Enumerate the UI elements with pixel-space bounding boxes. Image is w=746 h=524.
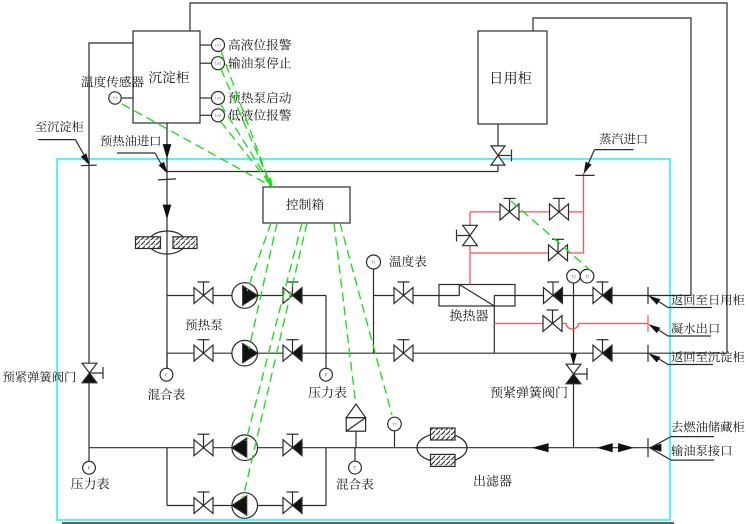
strainer 出滤器 xyxy=(417,433,467,462)
ctrl line box to relief xyxy=(334,223,356,402)
label 混合表 row3 xyxy=(336,478,348,489)
check valve hx out 2 xyxy=(593,288,603,304)
valve row1 inlet xyxy=(194,288,204,304)
leader arrow 蒸汽进口 xyxy=(584,162,591,172)
heat exchanger 换热器 xyxy=(439,285,515,307)
steam inlet riser (red) xyxy=(583,173,585,253)
steam valve 3 xyxy=(549,245,559,261)
pipe daily-tank top to inner riser xyxy=(533,18,691,296)
label 温度表 xyxy=(389,256,401,267)
temperature sensor T1 xyxy=(580,269,594,283)
temperature gauge T1 top xyxy=(367,255,381,269)
wire relief to row3 xyxy=(355,431,357,448)
steam lower header (red) xyxy=(470,252,584,254)
ctrl line box to pump3 xyxy=(246,223,302,441)
label 预热泵启动 xyxy=(229,92,241,104)
check valve row2 xyxy=(283,345,293,361)
pressure gauge stub bottom-left xyxy=(88,448,90,461)
flow arrow down 2 xyxy=(163,205,171,218)
level switch LS2 xyxy=(212,57,225,70)
ctrl line LS1 to box xyxy=(221,51,271,187)
pipe row4 xyxy=(167,505,326,507)
pressure gauge P bottom-left xyxy=(83,461,96,474)
leader arrow 返回至日用柜 xyxy=(650,297,660,305)
pipe row3-row4 left drop xyxy=(166,448,168,506)
pipe manifold row1 xyxy=(167,295,326,297)
green arrowhead into control box xyxy=(266,178,273,187)
tick 返回至沉淀柜 xyxy=(647,345,649,362)
label 凝水出口 xyxy=(672,323,683,334)
ctrl line TT to box xyxy=(122,104,272,187)
wire TT to tank xyxy=(121,97,133,99)
pipe settling-tank top to right riser xyxy=(190,3,727,353)
mixer oval 混合器 xyxy=(149,231,186,254)
pressure gauge P mid xyxy=(320,368,333,381)
tick at 至沉淀柜 xyxy=(81,164,97,167)
daily-use tank 日用柜 xyxy=(478,31,547,124)
pipe from daily tank valve to inlet node xyxy=(167,171,498,173)
label 高液位报警 xyxy=(229,39,240,51)
bottom frame line xyxy=(62,522,674,524)
ctrl line LS4 to box xyxy=(221,122,273,187)
strainer hatched box top xyxy=(431,428,456,440)
steam bypass valve xyxy=(463,225,478,235)
label 返回至沉淀柜 xyxy=(671,351,682,362)
label 混合表 left xyxy=(148,389,160,400)
pipe row1 drop to row2 xyxy=(325,296,327,369)
check valve row3 xyxy=(283,440,293,456)
wire spring valve to row3 xyxy=(88,382,90,448)
leader arrow bottom xyxy=(649,444,661,451)
pipe daily tank bottom outlet xyxy=(497,124,499,172)
label 输油泵接口 xyxy=(671,445,683,456)
valve daily tank outlet xyxy=(491,146,505,156)
steam upper header (red) xyxy=(470,211,584,213)
temperature sensor circle TT xyxy=(109,92,121,104)
pipe hx drain xyxy=(493,306,495,353)
label 预热泵 xyxy=(186,319,198,330)
pipe manifold row2 xyxy=(167,352,727,354)
valve condensate xyxy=(543,316,553,332)
label 至沉淀柜 xyxy=(36,121,47,131)
mixer hatched box left xyxy=(136,237,161,249)
wire spring valve to row3 pipe xyxy=(573,384,575,448)
safety relief symbol xyxy=(346,404,365,418)
wire tank to level switch 2 xyxy=(200,62,212,64)
check valve row4 xyxy=(283,498,293,514)
transfer pump 3 输油泵 xyxy=(232,435,258,461)
ctrl line LS2 to box xyxy=(221,69,272,187)
wire tank to level switch 3 xyxy=(200,97,212,99)
leader arrow 凝水出口 xyxy=(650,325,660,333)
tick 蒸汽进口 xyxy=(575,174,594,176)
room boundary (cyan) xyxy=(57,159,670,520)
ctrl line box to pump4 xyxy=(243,223,307,498)
mix gauge C left xyxy=(160,368,173,381)
label 输油泵停止 xyxy=(228,57,240,69)
wire tank to level switch 4 xyxy=(200,114,212,116)
label 去燃油储藏柜 xyxy=(672,421,683,432)
label 蒸汽进口 xyxy=(599,133,610,144)
wire temp gauge drop xyxy=(373,269,375,353)
label 压力表 mid xyxy=(308,387,320,399)
pipe row4-row3 right riser xyxy=(325,448,327,506)
pipe hx row in xyxy=(374,295,460,297)
valve row3 inlet xyxy=(194,440,204,456)
ctrl line LS3 to box xyxy=(221,104,273,187)
level switch LS1 xyxy=(212,39,225,52)
pipe preheat oil inlet vertical xyxy=(166,123,168,368)
hx internal baffle xyxy=(458,285,460,296)
temperature sensor T2 xyxy=(567,269,581,283)
tick 返回至日用柜 xyxy=(647,287,649,304)
steam left drop (red) xyxy=(469,212,471,253)
flow sensor circle xyxy=(388,417,402,431)
label 温度传感器 xyxy=(81,76,93,87)
wire tank to level switch 1 xyxy=(200,44,212,46)
pre-tension spring valve (right) xyxy=(566,364,581,374)
mix gauge stub xyxy=(166,353,168,368)
flow arrow down 1 xyxy=(163,145,171,158)
pipe hx row to riser xyxy=(648,295,691,297)
ctrl line box to pump2 xyxy=(249,223,277,349)
flow arrow left on row3 xyxy=(533,444,548,452)
pipe row3 xyxy=(89,447,648,449)
tick 凝水出口 (red) xyxy=(647,315,649,332)
level switch LS3 xyxy=(212,92,225,105)
tick 输油泵接口 xyxy=(647,438,649,457)
label 压力表 bottom-left xyxy=(71,478,83,490)
mixer hatched box right xyxy=(173,237,197,249)
flow arrow pair right xyxy=(619,444,633,452)
label 预热油进口 xyxy=(101,135,112,146)
capillary line valve to T1 xyxy=(511,201,591,271)
label 预紧弹簧阀门 (left) xyxy=(3,371,14,382)
tick below inlet node xyxy=(158,179,176,180)
ctrl line box to pump1 xyxy=(247,223,271,291)
steam to hx (red) xyxy=(469,253,471,285)
mix gauge C row3 xyxy=(349,461,362,474)
control box 控制箱 xyxy=(263,187,350,223)
label 换热器 xyxy=(450,309,462,321)
leader arrow 预热油进口 xyxy=(159,162,167,172)
check valve return xyxy=(593,345,603,361)
valve hx inlet xyxy=(394,288,404,304)
level switch LS4 xyxy=(212,109,225,122)
condensate pipe 凝水 xyxy=(494,324,648,330)
wire flow sensor to row3 xyxy=(394,431,396,448)
leader arrow 返回至沉淀柜 xyxy=(650,354,660,362)
steam valve 1 xyxy=(500,204,510,220)
pipe T2 riser xyxy=(573,283,575,364)
pipe settling tank left outlet xyxy=(89,43,133,364)
flow arrow down on riser xyxy=(571,354,576,364)
preheat pump 2 xyxy=(232,340,258,366)
pipe hx row out xyxy=(494,295,648,297)
label 返回至日用柜 xyxy=(671,294,682,305)
steam valve 2 xyxy=(550,204,560,220)
strainer hatched box bottom xyxy=(431,454,456,466)
label 出滤器 xyxy=(474,475,485,487)
valve row2 inlet xyxy=(194,345,204,361)
valve row4 inlet xyxy=(194,498,204,514)
ctrl line box to flow sensor xyxy=(340,223,392,415)
check valve hx out 1 xyxy=(544,288,554,304)
label 低液位报警 xyxy=(228,109,240,121)
mix gauge stub row3 xyxy=(354,448,356,462)
check valve row1 xyxy=(283,288,293,304)
settling tank 沉淀柜 xyxy=(133,31,200,123)
pre-tension spring valve (left) 预紧弹簧阀门 xyxy=(82,363,97,373)
leader arrow 至沉淀柜 xyxy=(81,154,88,164)
label 预紧弹簧阀门 (right) xyxy=(491,386,503,398)
transfer pump 4 xyxy=(232,493,258,519)
valve row2 right xyxy=(394,345,404,361)
preheat pump 1 预热泵 xyxy=(232,283,258,309)
flow arrow pair left xyxy=(598,444,612,452)
